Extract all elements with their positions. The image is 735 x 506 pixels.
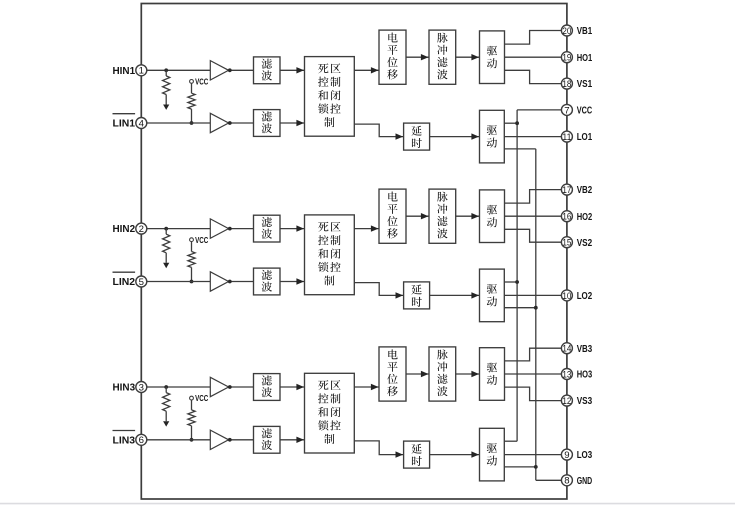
- delay block 延时 (phase 1): [404, 123, 430, 150]
- svg-text:VB3: VB3: [577, 343, 593, 355]
- svg-text:LO1: LO1: [577, 131, 593, 143]
- wire driver to VS3: [505, 387, 562, 401]
- pin 4 LIN1 (active low): [136, 118, 147, 129]
- filter block 滤波 (HIN2): [254, 215, 281, 242]
- node HIN2 pull-down junction: [164, 227, 168, 231]
- wire driver to HO2: [505, 215, 562, 217]
- pin 7 VCC: [561, 104, 572, 115]
- delay block 延时 (phase 2): [404, 282, 430, 309]
- filter block 滤波 (LIN2): [254, 268, 281, 295]
- svg-text:VS2: VS2: [577, 237, 593, 249]
- wire driver to VB3: [505, 348, 562, 361]
- svg-text:HO1: HO1: [577, 52, 593, 64]
- filter block 滤波 (HIN1): [254, 57, 281, 84]
- svg-text:LO2: LO2: [577, 290, 593, 302]
- node LIN2 pull-up junction: [190, 280, 194, 284]
- wire filter to dead-zone (HIN1): [280, 69, 305, 71]
- svg-text:11: 11: [562, 132, 571, 143]
- high-side driver block 驱动 (phase 3): [480, 348, 505, 401]
- svg-text:GND: GND: [577, 475, 593, 487]
- svg-text:LO3: LO3: [577, 449, 593, 461]
- wire dead-zone to delay (phase 3): [354, 441, 403, 455]
- filter block 滤波 (LIN3): [254, 426, 281, 453]
- pulse filter block 脉冲滤波 (phase 1): [429, 30, 456, 84]
- low-side driver block 驱动 (phase 3): [480, 428, 505, 481]
- svg-text:10: 10: [562, 291, 571, 302]
- wire low driver to COM rail (phase 2): [504, 307, 536, 309]
- page footer hairline: [0, 503, 735, 505]
- wire buffer to filter (HIN2): [229, 228, 254, 230]
- resistor pull-down on HIN1: [165, 70, 167, 76]
- pin 11 LO1: [561, 131, 572, 142]
- wire driver to VB2: [505, 190, 562, 204]
- svg-text:19: 19: [562, 53, 571, 64]
- dead-zone and latch control block (phase 1): [305, 57, 355, 137]
- wire pulse-filter to high-side driver (phase 2): [456, 215, 480, 217]
- pin 20 VB1: [561, 25, 572, 36]
- wire dead-zone to level-shift (phase 3): [354, 386, 379, 388]
- wire HIN2 input: [147, 228, 211, 230]
- wire buffer to filter (HIN1): [229, 69, 254, 71]
- svg-text:HIN1: HIN1: [113, 65, 136, 77]
- wire HIN3 input: [147, 386, 211, 388]
- level shift block 电平位移 (phase 3): [379, 347, 406, 401]
- node buffer LIN3 output: [228, 438, 232, 442]
- pin 12 VS3: [561, 395, 572, 406]
- wire level-shift to pulse-filter (phase 1): [406, 56, 429, 58]
- svg-text:7: 7: [564, 105, 569, 116]
- svg-text:13: 13: [562, 369, 571, 380]
- net VCC rail from pin 7: [517, 109, 561, 111]
- wire filter to dead-zone (HIN3): [280, 386, 305, 388]
- wire filter to dead-zone (LIN3): [280, 439, 305, 441]
- wire buffer to filter (HIN3): [229, 386, 254, 388]
- wire low driver to LO1: [504, 136, 561, 138]
- pin 2 HIN2: [136, 223, 147, 234]
- wire LIN1 input: [147, 122, 211, 124]
- node LIN1 pull-up junction: [190, 121, 194, 125]
- pin 5 LIN2 (active low): [136, 276, 147, 287]
- pin 6 LIN3 (active low): [136, 434, 147, 445]
- filter block 滤波 (HIN3): [254, 374, 281, 401]
- wire driver to HO3: [505, 373, 562, 375]
- node HIN1 pull-down junction: [164, 68, 168, 72]
- wire driver to VS1: [505, 70, 562, 83]
- wire buffer to filter (LIN3): [229, 439, 254, 441]
- svg-text:2: 2: [139, 224, 144, 235]
- resistor pull-down on HIN2: [165, 229, 167, 235]
- level shift block 电平位移 (phase 2): [379, 189, 406, 243]
- svg-text:LIN3: LIN3: [113, 434, 136, 446]
- wire low driver to VCC rail (phase 3): [504, 440, 517, 442]
- pin 13 HO3: [561, 369, 572, 380]
- pin 19 HO1: [561, 52, 572, 63]
- node LIN3 pull-up junction: [190, 438, 194, 442]
- svg-text:VCC: VCC: [195, 77, 208, 87]
- buffer input HIN2: [210, 219, 228, 238]
- wire low driver to COM rail (phase 1): [504, 148, 536, 150]
- wire low driver to VCC rail (phase 1): [504, 122, 517, 124]
- node HIN3 pull-down junction: [164, 385, 168, 389]
- wire HIN1 input: [147, 69, 211, 71]
- svg-text:VS3: VS3: [577, 395, 593, 407]
- wire low driver to COM rail (phase 3): [504, 466, 536, 468]
- wire driver to VS2: [505, 229, 562, 242]
- dead-zone and latch control block (phase 3): [305, 373, 355, 453]
- node buffer LIN2 output: [228, 280, 232, 284]
- wire driver to VB1: [505, 31, 562, 45]
- pin 16 HO2: [561, 211, 572, 222]
- wire level-shift to pulse-filter (phase 2): [406, 215, 429, 217]
- svg-text:VCC: VCC: [195, 393, 208, 403]
- svg-text:9: 9: [564, 450, 569, 461]
- svg-text:HIN3: HIN3: [113, 382, 136, 394]
- low-side driver block 驱动 (phase 1): [480, 110, 505, 163]
- svg-text:VB1: VB1: [577, 25, 593, 37]
- buffer input LIN2: [210, 272, 228, 291]
- svg-text:VCC: VCC: [195, 235, 208, 245]
- pulse filter block 脉冲滤波 (phase 2): [429, 189, 456, 243]
- svg-text:HO3: HO3: [577, 369, 593, 381]
- svg-text:HIN2: HIN2: [113, 223, 136, 235]
- wire filter to dead-zone (LIN2): [280, 281, 305, 283]
- pin 1 HIN1: [136, 65, 147, 76]
- wire dead-zone to level-shift (phase 1): [354, 69, 379, 71]
- svg-text:HO2: HO2: [577, 211, 593, 223]
- wire dead-zone to delay (phase 1): [354, 124, 403, 137]
- VCC terminal for LIN3 pull-up: [190, 396, 194, 400]
- wire filter to dead-zone (LIN1): [280, 122, 305, 124]
- svg-text:12: 12: [562, 396, 571, 407]
- node buffer HIN3 output: [228, 385, 232, 389]
- pin 10 LO2: [561, 290, 572, 301]
- wire buffer to filter (LIN1): [229, 122, 254, 124]
- node VCC rail junction (phase 2): [515, 280, 519, 284]
- filter block 滤波 (LIN1): [254, 110, 281, 137]
- svg-text:VCC: VCC: [577, 105, 593, 117]
- node buffer LIN1 output: [228, 121, 232, 125]
- ground arrow below HIN2 pull-down: [163, 263, 169, 268]
- svg-text:1: 1: [139, 66, 144, 77]
- wire low driver to VCC rail (phase 2): [504, 281, 517, 283]
- wire LIN2 input: [147, 281, 211, 283]
- svg-text:VS1: VS1: [577, 78, 593, 90]
- wire dead-zone to level-shift (phase 2): [354, 228, 379, 230]
- svg-text:6: 6: [139, 435, 144, 446]
- wire pulse-filter to high-side driver (phase 1): [456, 56, 480, 58]
- wire delay to low-side driver (phase 1): [430, 136, 480, 138]
- pin 14 VB3: [561, 343, 572, 354]
- svg-text:LIN1: LIN1: [113, 118, 136, 130]
- pin 9 LO3: [561, 449, 572, 460]
- buffer input HIN3: [210, 377, 228, 396]
- ground arrow below HIN1 pull-down: [163, 105, 169, 110]
- node COM rail junction (phase 3): [534, 465, 538, 469]
- buffer input LIN3: [210, 430, 228, 449]
- node COM rail junction (phase 2): [534, 306, 538, 310]
- net COM/GND rail to pin 8: [535, 149, 537, 480]
- svg-text:18: 18: [562, 79, 571, 90]
- level shift block 电平位移 (phase 1): [379, 30, 406, 84]
- ground arrow below HIN3 pull-down: [163, 421, 169, 426]
- delay block 延时 (phase 3): [404, 441, 430, 468]
- wire pulse-filter to high-side driver (phase 3): [456, 373, 480, 375]
- svg-text:17: 17: [562, 185, 571, 196]
- buffer input LIN1: [210, 113, 228, 132]
- pin 8 GND: [561, 475, 572, 486]
- pin 15 VS2: [561, 237, 572, 248]
- pin 3 HIN3: [136, 382, 147, 393]
- IC boundary box: [141, 4, 567, 500]
- node buffer HIN2 output: [228, 227, 232, 231]
- wire buffer to filter (LIN2): [229, 281, 254, 283]
- pin 17 VB2: [561, 184, 572, 195]
- VCC terminal for LIN2 pull-up: [190, 238, 194, 242]
- resistor pull-up on LIN3: [191, 400, 193, 410]
- wire delay to low-side driver (phase 2): [430, 294, 480, 296]
- svg-text:3: 3: [139, 382, 144, 393]
- dead-zone and latch control block (phase 2): [305, 215, 355, 295]
- svg-text:5: 5: [139, 277, 144, 288]
- resistor pull-up on LIN1: [191, 83, 193, 93]
- high-side driver block 驱动 (phase 1): [480, 31, 505, 84]
- wire low driver to LO2: [504, 294, 561, 296]
- svg-text:20: 20: [562, 26, 571, 37]
- svg-text:14: 14: [562, 344, 572, 355]
- resistor pull-down on HIN3: [165, 387, 167, 393]
- pin 18 VS1: [561, 78, 572, 89]
- wire delay to low-side driver (phase 3): [430, 454, 480, 456]
- wire level-shift to pulse-filter (phase 3): [406, 373, 429, 375]
- wire driver to HO1: [505, 56, 562, 58]
- svg-text:15: 15: [562, 238, 571, 249]
- svg-text:8: 8: [564, 476, 569, 487]
- wire filter to dead-zone (HIN2): [280, 228, 305, 230]
- wire dead-zone to delay (phase 2): [354, 283, 403, 296]
- resistor pull-up on LIN2: [191, 242, 193, 252]
- VCC terminal for LIN1 pull-up: [190, 80, 194, 84]
- low-side driver block 驱动 (phase 2): [480, 269, 505, 322]
- svg-text:VB2: VB2: [577, 184, 593, 196]
- node VCC rail junction (phase 1): [515, 121, 519, 125]
- svg-text:LIN2: LIN2: [113, 276, 136, 288]
- node buffer HIN1 output: [228, 68, 232, 72]
- svg-text:4: 4: [139, 118, 145, 129]
- pulse filter block 脉冲滤波 (phase 3): [429, 347, 456, 401]
- buffer input HIN1: [210, 61, 228, 80]
- wire LIN3 input: [147, 439, 211, 441]
- svg-text:16: 16: [562, 212, 571, 223]
- high-side driver block 驱动 (phase 2): [480, 190, 505, 243]
- wire low driver to LO3: [504, 454, 561, 456]
